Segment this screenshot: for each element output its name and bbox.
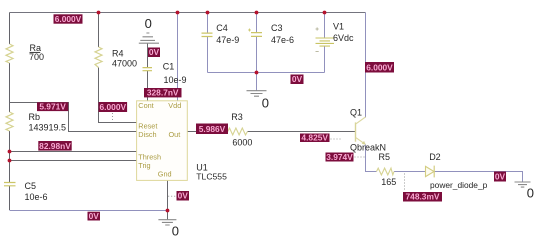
wire Out row to R3 xyxy=(187,131,228,133)
svg-text:power_diode_p: power_diode_p xyxy=(430,180,488,190)
svg-text:700: 700 xyxy=(29,52,44,62)
wire right vertical collector xyxy=(365,13,367,118)
svg-text:6.000V: 6.000V xyxy=(55,14,82,24)
wire V1 stubs xyxy=(324,13,326,73)
svg-text:748.3mV: 748.3mV xyxy=(406,192,440,202)
wire Trig row xyxy=(10,160,137,162)
svg-text:6.000V: 6.000V xyxy=(366,62,393,72)
bias badge 5.986V xyxy=(196,124,228,135)
capacitor C5 xyxy=(4,183,16,186)
dotted leader 0V gnd 555 xyxy=(168,195,176,197)
wire emitter down to R5 row xyxy=(366,145,377,172)
svg-text:328.7nV: 328.7nV xyxy=(147,88,179,98)
svg-text:V1: V1 xyxy=(333,21,344,31)
dotted leader 3.974V xyxy=(355,156,365,158)
svg-text:47e-9: 47e-9 xyxy=(216,35,239,45)
wire top rail xyxy=(10,12,366,14)
svg-text:Gnd: Gnd xyxy=(158,169,172,178)
svg-text:Vdd: Vdd xyxy=(168,101,181,110)
svg-text:Rb: Rb xyxy=(29,112,41,122)
svg-text:QbreakN: QbreakN xyxy=(350,143,386,153)
node junction dots xyxy=(97,11,101,15)
bias badge 0V above C1 xyxy=(148,47,160,57)
wire C4-C3-V1 bottom row xyxy=(208,72,325,74)
svg-text:Cont: Cont xyxy=(138,101,153,110)
svg-text:0V: 0V xyxy=(178,191,189,201)
svg-text:R5: R5 xyxy=(379,152,391,162)
svg-text:R3: R3 xyxy=(231,112,243,122)
wire D2 to right ground xyxy=(434,172,523,182)
svg-text:0: 0 xyxy=(262,96,269,111)
transistor Q1 xyxy=(355,122,357,141)
svg-text:0: 0 xyxy=(527,186,534,201)
svg-text:6Vdc: 6Vdc xyxy=(333,33,354,43)
svg-text:Out: Out xyxy=(169,130,181,139)
bias badge 0V bottom rail xyxy=(88,211,101,221)
bias badge 3.974V xyxy=(326,152,354,162)
dotted leader 4.825V xyxy=(331,138,342,140)
svg-text:4.825V: 4.825V xyxy=(301,133,328,143)
op-amp U1 TLC555 body xyxy=(137,101,188,181)
bias badge 748.3mV xyxy=(403,192,442,202)
resistor Ra xyxy=(6,44,13,63)
svg-text:C5: C5 xyxy=(25,181,37,191)
dotted leader 6.000V mid xyxy=(112,113,114,122)
bias badge 82.98nV xyxy=(38,141,71,151)
svg-text:C3: C3 xyxy=(271,23,283,33)
wire C4 stubs xyxy=(207,13,209,73)
wire R4 branch to Reset pin xyxy=(99,13,137,123)
bias badge 6.000V under R4 xyxy=(99,102,128,112)
svg-text:C1: C1 xyxy=(163,62,175,72)
wire Vdd stub xyxy=(177,13,179,101)
svg-text:3.974V: 3.974V xyxy=(326,152,353,162)
svg-text:6000: 6000 xyxy=(232,137,252,147)
svg-text:0V: 0V xyxy=(292,74,303,84)
svg-text:10e-9: 10e-9 xyxy=(164,75,187,85)
bias badge 0V at 555 gnd xyxy=(177,191,190,201)
wire left vertical Ra-Rb-C5 chain xyxy=(9,13,11,211)
svg-text:D2: D2 xyxy=(429,152,441,162)
svg-text:47e-6: 47e-6 xyxy=(271,35,294,45)
bias badge 5.971V xyxy=(37,102,68,112)
bias badge 4.825V xyxy=(300,133,330,143)
battery V1 xyxy=(316,38,335,46)
wire C3 stubs xyxy=(256,13,258,73)
wire bottom rail C5 to gnd xyxy=(10,210,168,212)
bias badge 328.7nV xyxy=(144,88,182,98)
dotted leader 748.3mV xyxy=(404,174,406,192)
svg-text:82.98nV: 82.98nV xyxy=(39,141,71,151)
wire 555 Gnd stub xyxy=(167,180,169,210)
wire bottom ground stem xyxy=(167,210,169,220)
bias badge 0V mid row xyxy=(291,74,304,84)
capacitor C3 xyxy=(251,33,262,37)
svg-text:0: 0 xyxy=(145,16,152,31)
svg-text:47000: 47000 xyxy=(112,58,137,68)
capacitor C1 xyxy=(143,68,153,71)
ground 0 below 555 xyxy=(158,220,176,225)
svg-text:TLC555: TLC555 xyxy=(196,171,227,181)
bias badge 6.000V right xyxy=(365,62,394,73)
bias badge 6.000V top-left xyxy=(54,14,83,24)
svg-text:Trig: Trig xyxy=(138,161,150,170)
svg-text:5.986V: 5.986V xyxy=(199,124,226,134)
resistor R4 xyxy=(95,47,102,68)
svg-text:R4: R4 xyxy=(112,49,124,59)
wire Ra/Rb junction to Disch pin (jog) xyxy=(10,103,137,132)
svg-text:0V: 0V xyxy=(89,211,100,221)
resistor Rb xyxy=(6,112,13,131)
svg-text:0V: 0V xyxy=(495,172,506,182)
svg-text:6.000V: 6.000V xyxy=(100,102,127,112)
wire R5 to D2 xyxy=(394,171,426,173)
wire mid ground stem xyxy=(256,73,258,91)
svg-text:5.971V: 5.971V xyxy=(39,102,66,112)
bias badge 0V right xyxy=(494,172,506,182)
svg-text:10e-6: 10e-6 xyxy=(25,192,48,202)
diode D2 xyxy=(426,166,435,176)
wire Thresh row xyxy=(10,151,137,153)
ground 0 below C3/C4 xyxy=(247,91,267,97)
resistor R5 xyxy=(377,168,395,175)
svg-text:143919.5: 143919.5 xyxy=(29,122,67,132)
svg-text:C4: C4 xyxy=(216,23,228,33)
svg-text:165: 165 xyxy=(381,177,396,187)
wire R3 to Q1 base xyxy=(248,131,356,133)
capacitor C4 xyxy=(202,33,213,36)
svg-text:Disch: Disch xyxy=(138,130,156,139)
ground 0 above C1 (flipped) xyxy=(139,33,159,43)
resistor R3 xyxy=(228,128,248,135)
wire ground to C1 to Cont stub xyxy=(147,44,149,101)
svg-text:0: 0 xyxy=(172,224,179,239)
svg-text:0V: 0V xyxy=(149,47,160,57)
svg-text:Q1: Q1 xyxy=(350,108,362,118)
ground 0 right of D2 xyxy=(515,182,531,187)
